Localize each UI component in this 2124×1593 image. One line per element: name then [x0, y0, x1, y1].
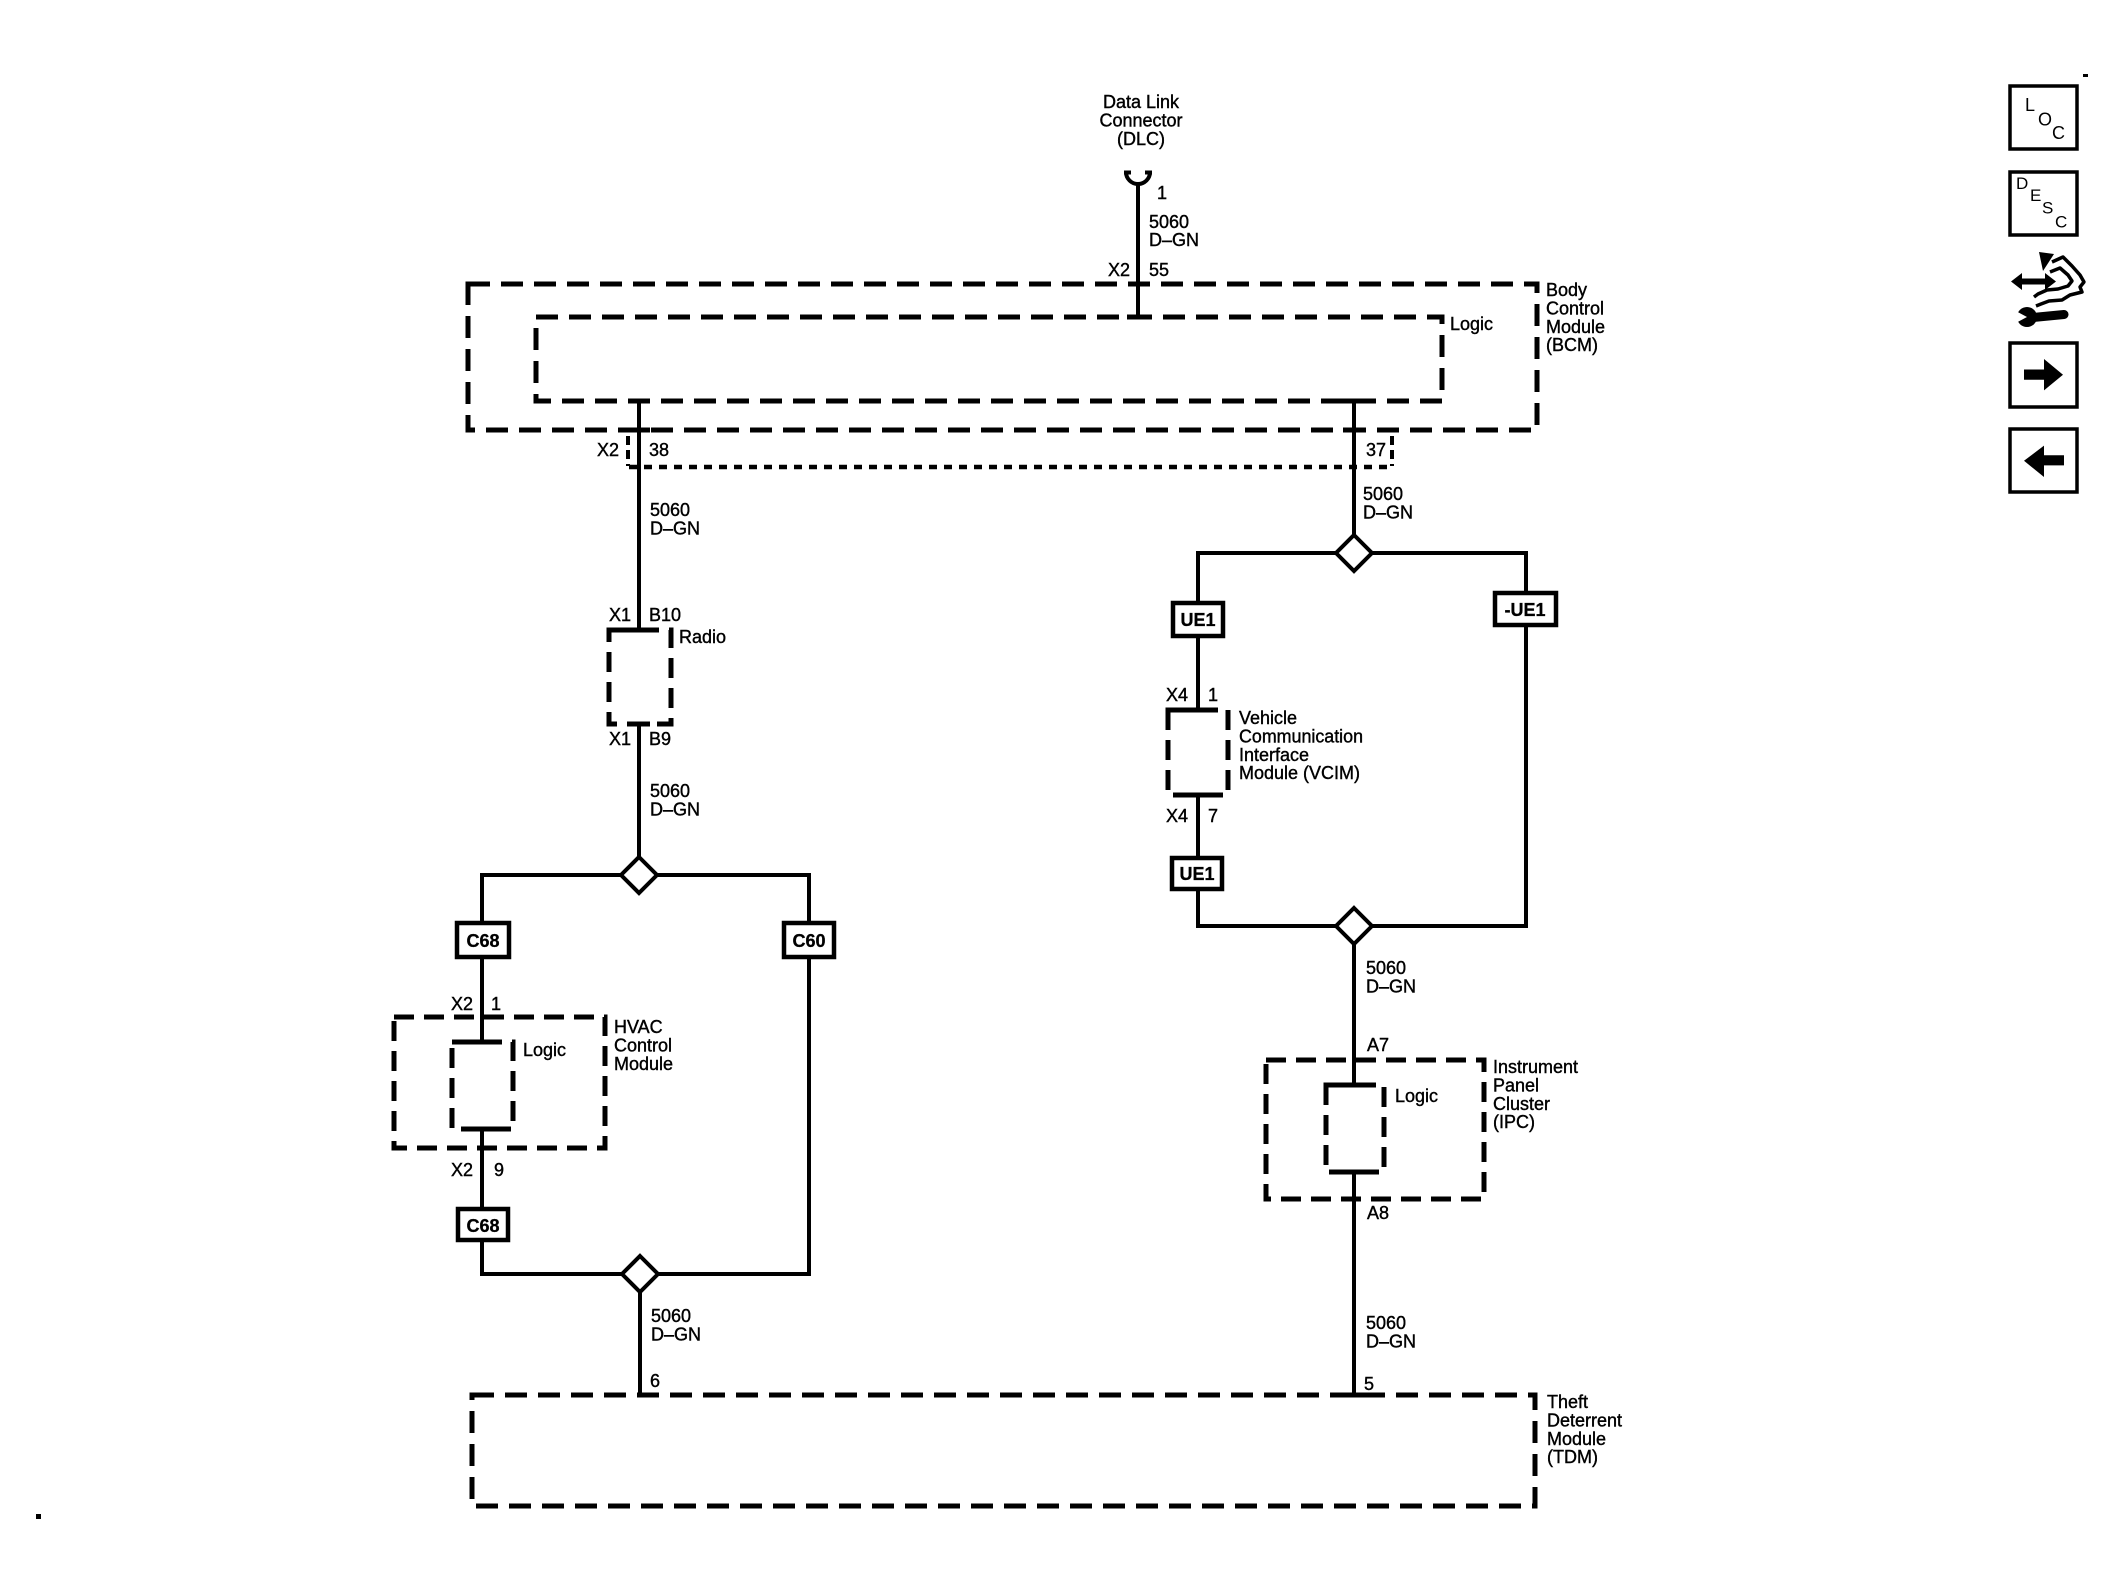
svg-text:X1: X1 — [609, 729, 631, 749]
svg-text:C: C — [2055, 213, 2067, 232]
connector DLC cavity symbol — [1124, 172, 1152, 184]
svg-text:Interface: Interface — [1239, 745, 1309, 765]
svg-text:C68: C68 — [466, 931, 499, 951]
wire 5060 D-GN from DLC to BCM — [1136, 185, 1140, 316]
module HVAC outer box — [394, 1017, 605, 1148]
value label 5060 D-GN (below radio) — [650, 781, 700, 819]
svg-text:Cluster: Cluster — [1493, 1094, 1550, 1114]
module HVAC name label — [614, 1017, 673, 1074]
svg-text:C68: C68 — [466, 1216, 499, 1236]
svg-text:Control: Control — [614, 1035, 672, 1055]
value label 5060 D-GN — [1149, 212, 1199, 250]
wire splice to TDM pin 6 — [638, 1274, 642, 1395]
wire C68 down to HVAC logic — [480, 957, 484, 1042]
icon DESC button — [2010, 172, 2077, 235]
svg-text:S: S — [2042, 199, 2053, 218]
svg-text:Control: Control — [1546, 298, 1604, 318]
pin tick at BCM logic box bottom (37) — [1343, 399, 1365, 404]
wire UE1 to VCIM pin 1 — [1196, 636, 1200, 710]
svg-text:Module: Module — [614, 1054, 673, 1074]
splice diamond (left lower) — [622, 1256, 658, 1292]
svg-text:5060: 5060 — [1366, 1313, 1406, 1333]
svg-text:Panel: Panel — [1493, 1075, 1539, 1095]
module VCIM box — [1168, 710, 1228, 795]
svg-text:Deterrent: Deterrent — [1547, 1410, 1622, 1430]
icon schematic/wrench — [2011, 252, 2084, 327]
svg-text:5060: 5060 — [650, 500, 690, 520]
pin tick TDM left — [639, 1393, 658, 1398]
connector C68 (lower) — [458, 1209, 508, 1240]
icon arrow-left button — [2010, 429, 2077, 492]
wire IPC A8 down to TDM pin 5 — [1352, 1172, 1356, 1395]
connector face dotted line — [629, 465, 1392, 470]
svg-text:5060: 5060 — [1363, 484, 1403, 504]
pin tick IPC logic bottom — [1344, 1170, 1366, 1175]
svg-text:B9: B9 — [649, 729, 671, 749]
stray mark bottom left — [36, 1514, 41, 1519]
wire BCM pin 38 down to Radio — [637, 401, 641, 630]
svg-text:5060: 5060 — [1366, 958, 1406, 978]
svg-text:D–GN: D–GN — [1366, 976, 1416, 996]
svg-text:7: 7 — [1208, 806, 1218, 826]
svg-text:5: 5 — [1364, 1374, 1374, 1394]
wire VCIM loop bottom (UE1 leg, bottom run, -UE1 leg) — [1198, 625, 1526, 926]
svg-text:5060: 5060 — [1149, 212, 1189, 232]
wire HVAC logic bottom to C68 lower — [480, 1129, 484, 1209]
svg-text:Module: Module — [1547, 1429, 1606, 1449]
module VCIM name label — [1239, 708, 1363, 783]
pin tick at BCM logic box bottom (38) — [628, 399, 650, 404]
wire VCIM loop top (UE1 leg, top run, -UE1 leg) — [1198, 553, 1526, 603]
pin tick VCIM bottom — [1187, 793, 1209, 798]
svg-text:X2: X2 — [597, 440, 619, 460]
svg-text:-UE1: -UE1 — [1504, 600, 1545, 620]
svg-text:X2: X2 — [1108, 260, 1130, 280]
connector C60 — [784, 923, 834, 957]
svg-text:5060: 5060 — [651, 1306, 691, 1326]
splice diamond (right lower) — [1336, 908, 1372, 944]
svg-text:D–GN: D–GN — [1149, 230, 1199, 250]
svg-text:Logic: Logic — [1450, 314, 1493, 334]
module BCM outer box — [468, 284, 1537, 430]
svg-text:(DLC): (DLC) — [1117, 129, 1165, 149]
svg-text:UE1: UE1 — [1180, 610, 1215, 630]
value label 5060 D-GN (to TDM right) — [1366, 1313, 1416, 1351]
splice diamond (right upper) — [1336, 535, 1372, 571]
value label 5060 D-GN (to IPC) — [1366, 958, 1416, 996]
svg-text:Communication: Communication — [1239, 726, 1363, 746]
svg-text:Theft: Theft — [1547, 1392, 1588, 1412]
module IPC name label — [1493, 1057, 1578, 1132]
module IPC logic box — [1326, 1085, 1384, 1172]
svg-text:A8: A8 — [1367, 1203, 1389, 1223]
svg-text:Module (VCIM): Module (VCIM) — [1239, 763, 1360, 783]
value label 5060 D-GN (right wire) — [1363, 484, 1413, 522]
svg-text:C: C — [2052, 123, 2065, 143]
pin tick DLC wire into logic box — [1127, 315, 1149, 320]
svg-text:1: 1 — [1208, 685, 1218, 705]
value label 5060 D-GN (to TDM left) — [651, 1306, 701, 1344]
pin label X2 1 (HVAC) — [451, 994, 501, 1014]
pin tick VCIM top — [1187, 708, 1209, 713]
svg-text:38: 38 — [649, 440, 669, 460]
svg-text:6: 6 — [650, 1371, 660, 1391]
svg-text:5060: 5060 — [650, 781, 690, 801]
wire splice down to IPC — [1352, 944, 1356, 1085]
svg-text:(IPC): (IPC) — [1493, 1112, 1535, 1132]
svg-text:UE1: UE1 — [1179, 864, 1214, 884]
pin label X2 9 — [451, 1160, 504, 1180]
wire Radio B9 down to splice — [637, 724, 641, 875]
pin tick Radio bottom B9 — [628, 722, 650, 727]
svg-text:1: 1 — [491, 994, 501, 1014]
module IPC outer box — [1266, 1060, 1484, 1199]
pin label X1 B9 — [609, 729, 671, 749]
pin label X4 1 (VCIM) — [1166, 685, 1218, 705]
wire BCM pin 37 down to splice — [1352, 401, 1356, 553]
svg-text:B10: B10 — [649, 605, 681, 625]
svg-text:X2: X2 — [451, 1160, 473, 1180]
stray mark top right — [2083, 74, 2088, 77]
svg-text:55: 55 — [1149, 260, 1169, 280]
pin tick IPC logic top — [1344, 1083, 1366, 1088]
svg-text:HVAC: HVAC — [614, 1017, 663, 1037]
svg-text:Instrument: Instrument — [1493, 1057, 1578, 1077]
svg-text:O: O — [2038, 110, 2052, 130]
wire HVAC loop top (C68 leg, top run, C60 leg) — [482, 875, 809, 923]
module HVAC logic box — [452, 1042, 513, 1129]
wire HVAC loop bottom (C68 leg, bottom run, C60 leg) — [482, 957, 809, 1274]
pin label X2 55 (BCM) — [1108, 260, 1169, 280]
icon LOC button — [2010, 86, 2077, 149]
svg-text:A7: A7 — [1367, 1035, 1389, 1055]
pin tick at BCM outer box bottom (38) — [628, 428, 650, 433]
svg-text:D–GN: D–GN — [650, 799, 700, 819]
svg-text:(BCM): (BCM) — [1546, 335, 1598, 355]
svg-text:X4: X4 — [1166, 685, 1188, 705]
svg-text:1: 1 — [1157, 183, 1167, 203]
svg-text:37: 37 — [1366, 440, 1386, 460]
pin tick Radio top B10 — [628, 628, 650, 633]
value label 5060 D-GN (left wire) — [650, 500, 700, 538]
pin label X1 B10 (Radio) — [609, 605, 681, 625]
svg-text:X2: X2 — [451, 994, 473, 1014]
module TDM name label — [1547, 1392, 1622, 1467]
svg-text:Data Link: Data Link — [1103, 92, 1180, 112]
connector C68 (upper) — [457, 923, 509, 957]
svg-text:C60: C60 — [792, 931, 825, 951]
svg-text:L: L — [2025, 95, 2035, 115]
svg-text:(TDM): (TDM) — [1547, 1447, 1598, 1467]
svg-text:Connector: Connector — [1099, 110, 1182, 130]
module BCM name label — [1546, 280, 1605, 355]
module TDM box — [472, 1395, 1535, 1506]
connector UE1 (upper) — [1173, 603, 1223, 636]
pin tick at BCM outer box bottom (37) — [1343, 428, 1365, 433]
module Radio box — [609, 630, 671, 724]
svg-text:Logic: Logic — [523, 1040, 566, 1060]
connector bracket right (dashed) — [1390, 436, 1394, 466]
svg-text:Module: Module — [1546, 317, 1605, 337]
pin tick TDM right — [1343, 1393, 1365, 1398]
splice diamond (left upper) — [621, 857, 657, 893]
connector X2 left bracket (dashed) — [626, 436, 630, 466]
svg-text:Vehicle: Vehicle — [1239, 708, 1297, 728]
svg-text:D–GN: D–GN — [1363, 502, 1413, 522]
connector UE1 (lower) — [1172, 858, 1222, 889]
svg-text:Logic: Logic — [1395, 1086, 1438, 1106]
pin tick HVAC logic top — [471, 1040, 493, 1045]
wire VCIM pin 7 to UE1 lower — [1196, 795, 1200, 858]
svg-text:E: E — [2030, 186, 2041, 205]
svg-text:Body: Body — [1546, 280, 1587, 300]
svg-text:D–GN: D–GN — [651, 1324, 701, 1344]
connector -UE1 — [1495, 593, 1556, 625]
svg-text:D: D — [2016, 174, 2028, 193]
svg-text:X1: X1 — [609, 605, 631, 625]
icon arrow-right button — [2010, 343, 2077, 407]
svg-text:Radio: Radio — [679, 627, 726, 647]
module BCM logic box — [536, 317, 1442, 401]
svg-text:9: 9 — [494, 1160, 504, 1180]
pin label X2 38 — [597, 440, 669, 460]
svg-text:X4: X4 — [1166, 806, 1188, 826]
svg-text:D–GN: D–GN — [1366, 1331, 1416, 1351]
node DLC label — [1099, 92, 1182, 149]
svg-text:D–GN: D–GN — [650, 518, 700, 538]
pin tick HVAC logic bottom — [471, 1127, 493, 1132]
pin label X4 7 — [1166, 806, 1218, 826]
